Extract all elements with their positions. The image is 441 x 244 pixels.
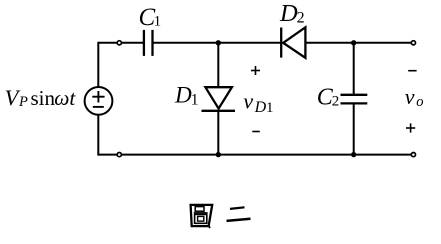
- svg-text:1: 1: [266, 100, 274, 116]
- svg-text:1: 1: [191, 92, 199, 109]
- svg-text:o: o: [416, 94, 423, 110]
- svg-text:v: v: [405, 84, 415, 109]
- svg-text:1: 1: [154, 13, 162, 29]
- svg-text:D: D: [174, 82, 192, 108]
- svg-text:D: D: [254, 99, 267, 116]
- svg-text:ωt: ωt: [54, 86, 76, 110]
- svg-text:P: P: [18, 94, 28, 110]
- svg-text:2: 2: [332, 93, 340, 109]
- svg-text:v: v: [243, 89, 253, 114]
- svg-text:2: 2: [297, 9, 305, 26]
- svg-text:D: D: [279, 0, 298, 27]
- svg-text:sin: sin: [31, 86, 56, 110]
